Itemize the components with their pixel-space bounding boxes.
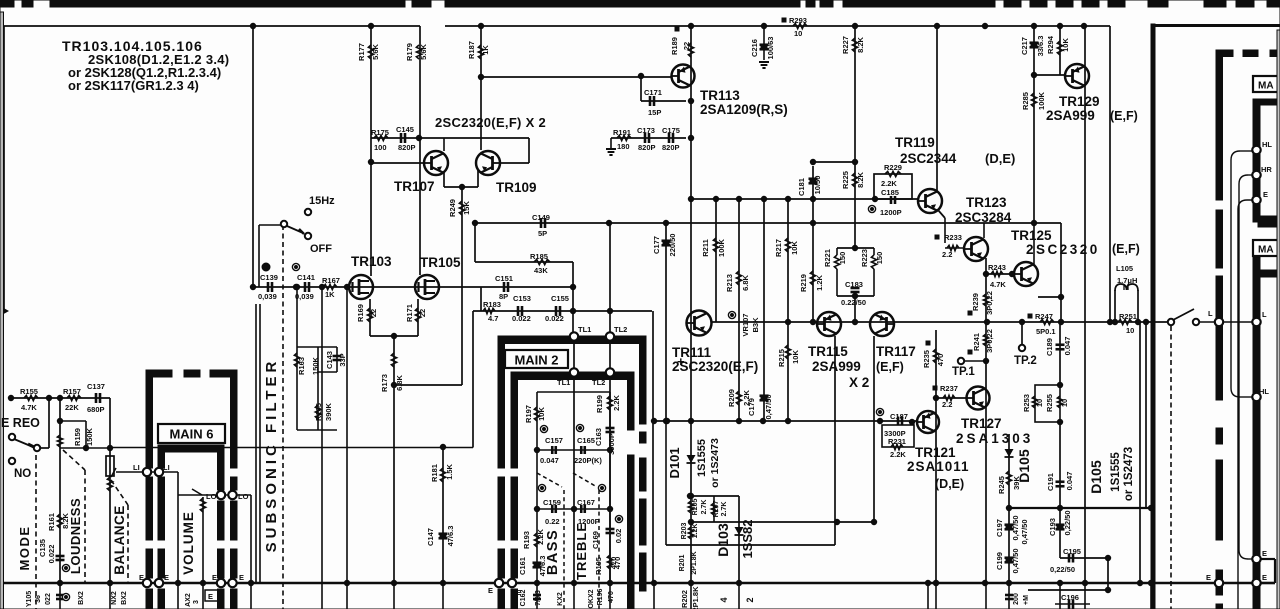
svg-text:LO: LO: [238, 492, 249, 501]
svg-text:200: 200: [1013, 593, 1020, 605]
svg-text:15K: 15K: [462, 201, 471, 215]
svg-text:MA: MA: [1258, 245, 1274, 256]
svg-text:C197: C197: [995, 519, 1004, 537]
svg-text:2SC2320: 2SC2320: [1026, 242, 1100, 257]
svg-text:B3K: B3K: [751, 317, 760, 333]
svg-text:MODE: MODE: [17, 526, 32, 571]
svg-text:5.6K: 5.6K: [419, 43, 428, 59]
svg-text:D105: D105: [1016, 449, 1032, 483]
svg-text:4: 4: [719, 597, 729, 602]
svg-text:100K: 100K: [717, 238, 726, 257]
svg-text:R251: R251: [1119, 312, 1137, 321]
svg-text:2.2K: 2.2K: [890, 450, 906, 459]
svg-text:R209: R209: [727, 389, 736, 407]
svg-text:C169: C169: [591, 531, 600, 549]
svg-text:2.2K: 2.2K: [536, 528, 545, 544]
svg-text:C177: C177: [652, 236, 661, 254]
svg-text:1.2K: 1.2K: [692, 524, 699, 539]
svg-text:15P: 15P: [648, 108, 661, 117]
svg-text:8.2K: 8.2K: [856, 171, 865, 187]
svg-text:R207: R207: [713, 501, 720, 518]
svg-text:470: 470: [936, 354, 945, 367]
svg-text:TP.2: TP.2: [1014, 355, 1037, 367]
svg-text:R161: R161: [47, 513, 56, 531]
svg-text:HL: HL: [1262, 140, 1272, 149]
svg-text:C199: C199: [995, 552, 1004, 570]
svg-text:10: 10: [1060, 399, 1069, 407]
svg-text:0,47/50: 0,47/50: [1011, 548, 1020, 573]
svg-text:D101: D101: [667, 447, 682, 478]
svg-text:33/6.3: 33/6.3: [1036, 36, 1045, 57]
svg-text:C175: C175: [662, 126, 680, 135]
svg-text:R239: R239: [971, 293, 980, 311]
svg-text:L: L: [1208, 309, 1213, 318]
svg-text:3P0,22: 3P0,22: [985, 291, 994, 315]
svg-text:VOLUME: VOLUME: [181, 511, 196, 575]
svg-text:3: 3: [193, 600, 200, 604]
svg-text:R202: R202: [680, 590, 689, 608]
svg-text:or 1S2473: or 1S2473: [709, 438, 721, 488]
svg-text:E: E: [1262, 573, 1267, 582]
svg-text:2SC2320(E,F) X 2: 2SC2320(E,F) X 2: [435, 115, 546, 130]
svg-text:8.2K: 8.2K: [856, 36, 865, 52]
svg-text:2.2K: 2.2K: [612, 394, 621, 410]
svg-text:D103: D103: [715, 523, 731, 557]
svg-text:R163: R163: [297, 357, 306, 375]
svg-text:R294: R294: [1046, 35, 1055, 54]
svg-text:1200P: 1200P: [880, 208, 902, 217]
svg-text:0.047: 0.047: [1063, 337, 1072, 356]
svg-text:R185: R185: [530, 252, 548, 261]
svg-text:R249: R249: [448, 199, 457, 217]
svg-text:7/6.3: 7/6.3: [535, 590, 542, 606]
svg-text:C145: C145: [396, 125, 414, 134]
svg-text:1.2K: 1.2K: [815, 274, 824, 290]
svg-text:TL1: TL1: [578, 325, 591, 334]
svg-text:150K: 150K: [311, 356, 320, 375]
svg-text:C195: C195: [1063, 547, 1081, 556]
svg-text:C171: C171: [644, 88, 662, 97]
svg-text:C165: C165: [577, 436, 595, 445]
svg-text:OFF: OFF: [310, 243, 332, 255]
svg-text:E: E: [212, 573, 217, 582]
svg-text:C217: C217: [1020, 37, 1029, 55]
svg-text:C163: C163: [594, 428, 603, 446]
svg-text:0.02: 0.02: [614, 529, 623, 544]
svg-text:TR113: TR113: [700, 88, 740, 103]
svg-text:10: 10: [1035, 399, 1044, 407]
svg-text:33P: 33P: [338, 353, 347, 366]
svg-text:TREBLE: TREBLE: [574, 522, 589, 580]
svg-text:(E,F): (E,F): [1110, 109, 1138, 123]
svg-text:R231: R231: [888, 437, 906, 446]
svg-text:C141: C141: [297, 273, 315, 282]
svg-text:or 1S2473: or 1S2473: [1123, 447, 1135, 501]
svg-text:AX2: AX2: [185, 593, 192, 607]
svg-text:BX2: BX2: [78, 591, 85, 605]
svg-text:BALANCE: BALANCE: [112, 505, 127, 575]
svg-text:R217: R217: [774, 239, 783, 257]
svg-text:E: E: [1263, 190, 1268, 199]
svg-text:680P: 680P: [87, 405, 105, 414]
svg-text:R219: R219: [799, 274, 808, 292]
svg-text:1.5K: 1.5K: [445, 463, 454, 479]
svg-text:BX2: BX2: [121, 591, 128, 605]
svg-text:36: 36: [35, 595, 42, 603]
svg-text:C155: C155: [551, 294, 569, 303]
svg-text:2.7K: 2.7K: [701, 500, 708, 515]
svg-text:(E,F): (E,F): [1112, 242, 1140, 256]
svg-text:E: E: [208, 592, 213, 601]
svg-text:R223: R223: [860, 249, 869, 267]
svg-text:R199: R199: [595, 395, 604, 413]
svg-text:X 2: X 2: [849, 375, 869, 390]
svg-text:MAIN 6: MAIN 6: [169, 427, 213, 442]
svg-text:R201: R201: [679, 555, 686, 572]
svg-text:2P1.8K: 2P1.8K: [691, 551, 698, 574]
svg-text:3P0,22: 3P0,22: [985, 329, 994, 353]
svg-text:R193: R193: [522, 531, 531, 549]
svg-text:R255: R255: [1045, 394, 1054, 412]
svg-text:C147: C147: [426, 528, 435, 546]
svg-text:820P: 820P: [398, 143, 416, 152]
svg-text:R155: R155: [20, 387, 38, 396]
svg-text:R197: R197: [524, 405, 533, 423]
svg-text:C143: C143: [325, 351, 334, 369]
svg-text:0.22: 0.22: [545, 517, 560, 526]
svg-text:10K: 10K: [791, 350, 800, 364]
svg-text:1S1555: 1S1555: [1110, 452, 1122, 492]
svg-text:E REO: E REO: [1, 416, 40, 430]
svg-text:R211: R211: [701, 239, 710, 257]
svg-text:2SC2320(E,F): 2SC2320(E,F): [672, 359, 758, 374]
svg-text:or 2SK117(GR1.2.3 4): or 2SK117(GR1.2.3 4): [68, 78, 199, 93]
svg-text:HR: HR: [1261, 165, 1272, 174]
svg-text:E: E: [139, 573, 144, 582]
svg-text:R221: R221: [823, 249, 832, 267]
svg-text:R171: R171: [405, 304, 414, 322]
svg-text:(D,E): (D,E): [985, 151, 1015, 166]
svg-text:TR123: TR123: [966, 195, 1007, 210]
svg-text:22: 22: [369, 309, 378, 317]
svg-text:(D,E): (D,E): [935, 477, 964, 491]
svg-text:R285: R285: [1021, 92, 1030, 110]
svg-text:C191: C191: [1046, 473, 1055, 491]
svg-text:0.022: 0.022: [47, 545, 56, 564]
svg-text:R196: R196: [597, 589, 604, 606]
svg-text:R191: R191: [613, 128, 631, 137]
svg-text:100/63: 100/63: [766, 37, 775, 60]
svg-text:43K: 43K: [534, 266, 548, 275]
svg-text:NX2: NX2: [111, 591, 118, 605]
svg-text:22: 22: [682, 42, 691, 50]
svg-text:C161: C161: [518, 557, 527, 575]
svg-text:150K: 150K: [85, 427, 94, 446]
svg-text:220P(K): 220P(K): [574, 456, 602, 465]
svg-text:R241: R241: [972, 333, 981, 351]
svg-text:R253: R253: [1022, 394, 1031, 412]
svg-text:TR125: TR125: [1011, 228, 1052, 243]
svg-text:C193: C193: [1048, 518, 1057, 536]
svg-text:C151: C151: [495, 274, 513, 283]
svg-text:820P: 820P: [662, 143, 680, 152]
svg-text:0,039: 0,039: [295, 292, 314, 301]
svg-text:C149: C149: [532, 213, 550, 222]
svg-text:10: 10: [794, 29, 802, 38]
svg-text:HL: HL: [1259, 387, 1269, 396]
svg-text:820P: 820P: [638, 143, 656, 152]
svg-text:C139: C139: [260, 273, 278, 282]
svg-text:1K: 1K: [325, 290, 335, 299]
svg-text:1S1555: 1S1555: [696, 439, 708, 477]
svg-text:R167: R167: [322, 276, 340, 285]
svg-text:R165: R165: [314, 403, 323, 421]
svg-text:0,47/50: 0,47/50: [1011, 515, 1020, 540]
svg-text:0.047: 0.047: [1065, 472, 1074, 491]
svg-text:0,47/50: 0,47/50: [1020, 519, 1029, 544]
svg-text:L: L: [1262, 310, 1267, 319]
svg-text:Y105: Y105: [26, 591, 33, 607]
svg-text:R293: R293: [789, 16, 807, 25]
svg-text:220/50: 220/50: [668, 234, 677, 257]
svg-text:TR109: TR109: [496, 180, 537, 195]
svg-text:OKX2: OKX2: [588, 589, 595, 608]
svg-text:C189: C189: [1045, 338, 1054, 356]
svg-text:15Hz: 15Hz: [309, 195, 335, 207]
svg-text:22K: 22K: [65, 403, 79, 412]
svg-text:TL1: TL1: [557, 378, 570, 387]
svg-text:6.8K: 6.8K: [741, 274, 750, 290]
svg-text:10K: 10K: [1061, 38, 1070, 52]
svg-text:TR117: TR117: [876, 344, 916, 359]
svg-text:TP.1: TP.1: [952, 366, 975, 378]
svg-text:C167: C167: [577, 498, 595, 507]
svg-text:5.6K: 5.6K: [371, 43, 380, 59]
svg-text:(E,F): (E,F): [876, 360, 904, 374]
svg-text:C216: C216: [750, 39, 759, 57]
svg-text:0,47/50: 0,47/50: [764, 394, 773, 419]
svg-text:1SS82: 1SS82: [740, 519, 755, 558]
svg-text:R235: R235: [922, 350, 931, 368]
svg-text:KX2: KX2: [557, 592, 564, 606]
svg-text:R189: R189: [670, 37, 679, 55]
svg-text:E: E: [164, 573, 169, 582]
svg-text:C173: C173: [637, 126, 655, 135]
svg-text:TR119: TR119: [895, 135, 935, 150]
svg-text:R215: R215: [777, 349, 786, 367]
svg-text:R159: R159: [73, 428, 82, 446]
svg-text:2SA999: 2SA999: [1046, 108, 1095, 123]
svg-text:0.22/50: 0.22/50: [841, 298, 866, 307]
svg-text:R213: R213: [725, 274, 734, 292]
svg-text:390K: 390K: [324, 402, 333, 421]
svg-text:2.7K: 2.7K: [721, 502, 728, 517]
svg-text:R225: R225: [841, 171, 850, 189]
svg-text:TR129: TR129: [1059, 94, 1100, 109]
svg-text:2: 2: [745, 597, 755, 602]
svg-text:0.047: 0.047: [540, 456, 559, 465]
svg-text:47/6.3: 47/6.3: [446, 526, 455, 547]
svg-text:3900P: 3900P: [607, 433, 616, 455]
svg-text:TL2: TL2: [592, 378, 605, 387]
svg-text:2.2K: 2.2K: [881, 179, 897, 188]
svg-text:10: 10: [1126, 326, 1134, 335]
svg-text:C135: C135: [38, 539, 47, 557]
svg-text:R205: R205: [692, 499, 699, 516]
svg-text:0.022: 0.022: [512, 314, 531, 323]
svg-text:2SA1011: 2SA1011: [907, 459, 970, 474]
svg-text:TR105: TR105: [420, 255, 461, 270]
svg-text:C162: C162: [520, 590, 527, 607]
svg-text:D105: D105: [1088, 460, 1104, 494]
svg-text:SUBSONIC FILTER: SUBSONIC FILTER: [263, 358, 280, 553]
svg-text:TR127: TR127: [961, 416, 1002, 431]
svg-text:2SA1209(R,S): 2SA1209(R,S): [700, 102, 788, 117]
svg-text:180: 180: [617, 142, 630, 151]
svg-text:C153: C153: [513, 294, 531, 303]
svg-text:0,22/50: 0,22/50: [1063, 510, 1072, 535]
svg-text:NO: NO: [14, 468, 31, 480]
svg-text:TR121: TR121: [915, 445, 956, 460]
svg-text:470: 470: [613, 557, 622, 570]
svg-text:MA: MA: [1258, 81, 1274, 92]
svg-text:E: E: [1206, 573, 1211, 582]
svg-text:E: E: [239, 573, 244, 582]
svg-text:R169: R169: [356, 304, 365, 322]
svg-text:R179: R179: [405, 43, 414, 61]
svg-text:470: 470: [608, 591, 615, 603]
svg-text:R203: R203: [681, 523, 688, 540]
svg-text:+M: +M: [1023, 595, 1030, 605]
svg-text:C137: C137: [87, 382, 105, 391]
svg-text:TL2: TL2: [614, 325, 627, 334]
svg-text:2SC2344: 2SC2344: [900, 151, 957, 166]
svg-text:22: 22: [418, 309, 427, 317]
svg-text:R195: R195: [594, 557, 603, 575]
svg-text:C196: C196: [1061, 593, 1079, 602]
svg-text:R181: R181: [430, 464, 439, 482]
svg-text:C159: C159: [543, 498, 561, 507]
svg-text:C179: C179: [747, 398, 756, 416]
svg-text:2SC3284: 2SC3284: [955, 210, 1012, 225]
svg-text:E: E: [1262, 549, 1267, 558]
svg-text:1K: 1K: [481, 45, 490, 55]
svg-text:5P: 5P: [538, 229, 547, 238]
svg-text:LOUDNESS: LOUDNESS: [68, 498, 83, 574]
svg-text:R245: R245: [997, 476, 1006, 494]
svg-text:R187: R187: [467, 41, 476, 59]
svg-text:R157: R157: [63, 387, 81, 396]
svg-text:150: 150: [838, 252, 847, 265]
svg-text:0.022: 0.022: [545, 314, 564, 323]
svg-text:2P1.8K: 2P1.8K: [691, 586, 700, 609]
svg-text:2SA1303: 2SA1303: [956, 431, 1033, 446]
svg-text:LI: LI: [133, 463, 140, 472]
svg-text:R177: R177: [357, 43, 366, 61]
svg-text:L105: L105: [1116, 264, 1133, 273]
svg-text:2SA999: 2SA999: [812, 359, 861, 374]
svg-text:LO: LO: [206, 492, 217, 501]
svg-text:10K: 10K: [790, 241, 799, 255]
svg-text:150: 150: [875, 252, 884, 265]
svg-text:100K: 100K: [1037, 91, 1046, 110]
svg-text:1.7μH: 1.7μH: [1117, 276, 1137, 285]
svg-text:TR115: TR115: [808, 344, 848, 359]
svg-text:R183: R183: [483, 300, 501, 309]
svg-text:2.2: 2.2: [942, 400, 952, 409]
svg-text:R229: R229: [884, 163, 902, 172]
svg-text:TR107: TR107: [394, 179, 435, 194]
svg-text:R173: R173: [380, 374, 389, 392]
svg-text:4.7K: 4.7K: [990, 280, 1006, 289]
svg-text:LI: LI: [163, 463, 170, 472]
svg-text:R227: R227: [841, 36, 850, 54]
svg-text:MAIN 2: MAIN 2: [514, 353, 558, 368]
svg-text:0,039: 0,039: [258, 292, 277, 301]
svg-text:10/50: 10/50: [813, 176, 822, 195]
svg-text:R243: R243: [988, 263, 1006, 272]
svg-text:R233: R233: [944, 233, 962, 242]
svg-text:C183: C183: [845, 280, 863, 289]
svg-text:C157: C157: [545, 436, 563, 445]
svg-text:R175: R175: [371, 128, 389, 137]
svg-text:5P0.1: 5P0.1: [1036, 327, 1056, 336]
svg-text:C187: C187: [890, 412, 908, 421]
svg-text:R247: R247: [1035, 312, 1053, 321]
svg-text:10K: 10K: [537, 407, 546, 421]
svg-text:+: +: [677, 354, 685, 369]
svg-text:022: 022: [45, 593, 52, 605]
svg-text:TR103: TR103: [351, 254, 392, 269]
svg-text:2.2: 2.2: [942, 250, 952, 259]
svg-text:VR107: VR107: [741, 314, 750, 337]
svg-text:BASS: BASS: [545, 529, 561, 575]
svg-text:100: 100: [374, 143, 387, 152]
svg-text:4.7: 4.7: [488, 314, 498, 323]
svg-text:R237: R237: [940, 384, 958, 393]
svg-text:4.7K: 4.7K: [21, 403, 37, 412]
svg-text:0,22/50: 0,22/50: [1050, 565, 1075, 574]
svg-text:C185: C185: [881, 188, 899, 197]
svg-text:E: E: [488, 586, 493, 595]
svg-text:6.8K: 6.8K: [395, 374, 404, 390]
svg-text:C181: C181: [797, 178, 806, 196]
